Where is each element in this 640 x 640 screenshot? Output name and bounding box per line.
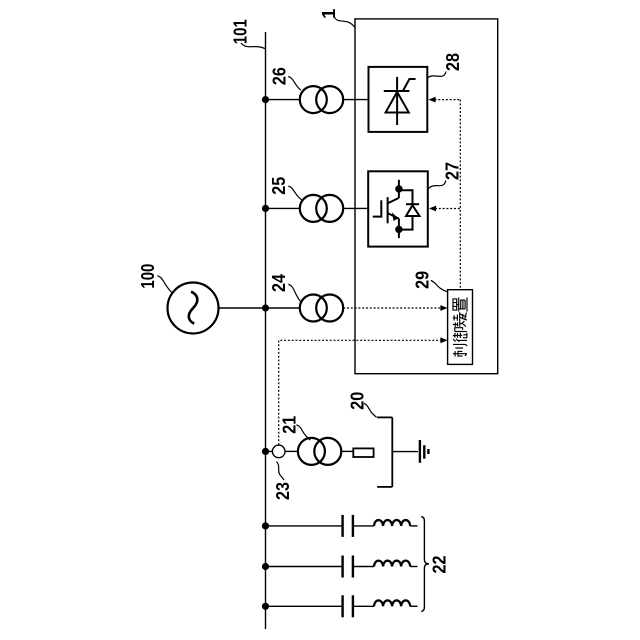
svg-text:29: 29	[412, 271, 433, 289]
svg-text:21: 21	[278, 416, 299, 434]
svg-text:28: 28	[442, 53, 463, 71]
svg-text:1: 1	[318, 9, 339, 19]
svg-text:26: 26	[269, 67, 290, 85]
svg-text:20: 20	[347, 392, 368, 410]
svg-text:101: 101	[229, 19, 250, 44]
svg-text:23: 23	[272, 482, 293, 500]
svg-text:100: 100	[137, 264, 158, 289]
svg-text:24: 24	[268, 273, 289, 292]
svg-text:27: 27	[441, 162, 462, 180]
svg-text:22: 22	[429, 556, 450, 574]
svg-text:25: 25	[268, 177, 289, 195]
